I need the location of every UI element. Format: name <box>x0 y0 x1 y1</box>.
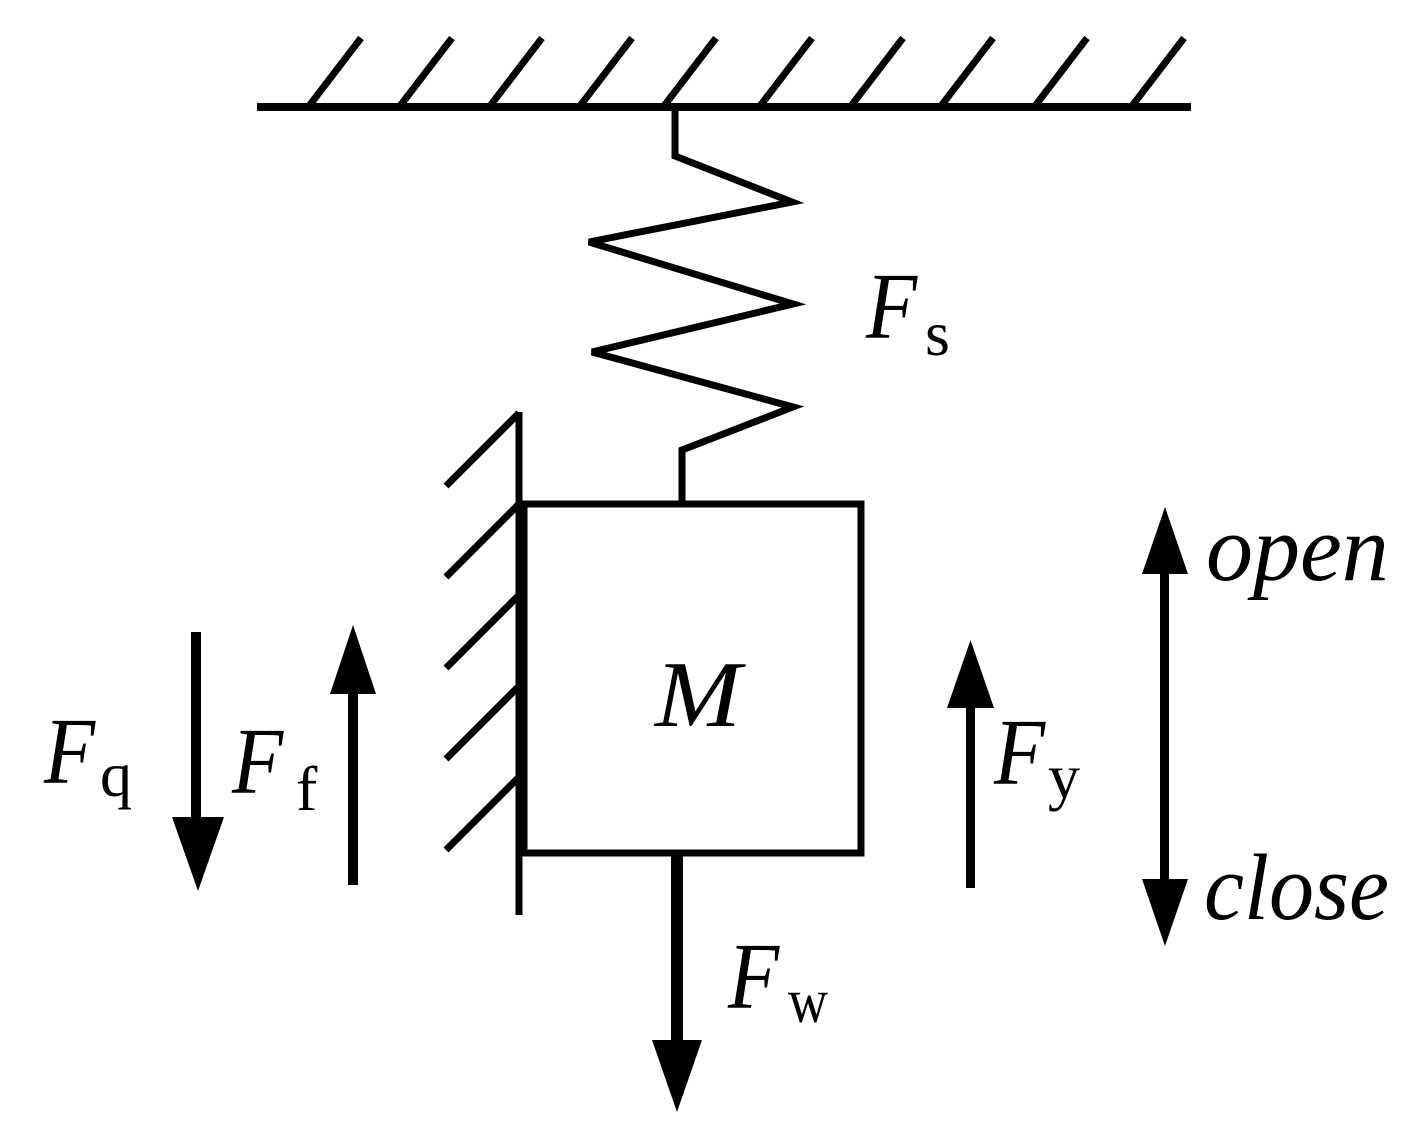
mass M box <box>524 504 861 853</box>
svg-text:F: F <box>993 702 1047 806</box>
svg-text:M: M <box>653 643 746 747</box>
spring Fs <box>589 108 793 503</box>
svg-text:open: open <box>1206 497 1389 601</box>
svg-text:close: close <box>1204 836 1389 940</box>
force arrow Ff (up) <box>330 625 376 885</box>
svg-text:F: F <box>727 926 781 1030</box>
svg-text:f: f <box>296 753 318 824</box>
svg-text:F: F <box>865 256 919 360</box>
svg-text:F: F <box>43 701 97 805</box>
svg-text:q: q <box>100 739 132 810</box>
svg-text:w: w <box>788 965 828 1036</box>
svg-text:s: s <box>925 298 950 369</box>
force arrow Fq (down) <box>172 632 224 891</box>
ceiling <box>257 38 1191 107</box>
force arrow Fy (up) <box>947 640 994 888</box>
svg-text:F: F <box>231 711 285 815</box>
wall <box>446 412 519 915</box>
motion double arrow open/close <box>1142 507 1188 946</box>
force arrow Fw (down) <box>652 853 702 1112</box>
svg-text:y: y <box>1048 741 1080 812</box>
